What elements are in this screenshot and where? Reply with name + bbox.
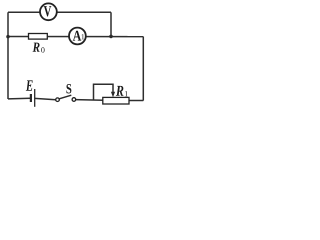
rheostat R1 — [94, 84, 130, 104]
label A — [73, 31, 81, 41]
voltmeter circle — [40, 3, 57, 20]
ammeter A — [69, 28, 86, 45]
ammeter circle — [69, 28, 86, 45]
wire battery to switch — [35, 98, 56, 99]
wire slider tap — [94, 84, 114, 100]
battery positive plate (long) — [34, 89, 36, 107]
node junction left — [6, 35, 10, 39]
switch left terminal — [56, 98, 60, 102]
resistor R1 box — [103, 97, 129, 104]
node junction right — [109, 35, 113, 39]
label E — [26, 80, 33, 90]
wire top horizontal — [8, 11, 111, 13]
label R1 — [116, 86, 124, 96]
battery negative plate (short) — [30, 94, 32, 102]
wire upper right vertical — [110, 12, 112, 36]
switch S — [56, 84, 76, 101]
resistor R0 box — [29, 34, 48, 40]
voltmeter V — [40, 3, 57, 20]
wire switch to rheostat — [76, 99, 104, 102]
wire bottom left segment — [8, 97, 31, 100]
label S — [66, 84, 71, 93]
resistor R0 — [29, 34, 48, 53]
battery E — [26, 80, 35, 106]
wire middle branch — [8, 36, 143, 38]
wire rheostat to right — [129, 100, 144, 102]
slider arrow — [111, 92, 115, 98]
switch lever — [59, 95, 71, 99]
wire right vertical — [142, 37, 144, 101]
switch right terminal — [72, 98, 76, 102]
wire left vertical — [7, 12, 9, 99]
label V — [44, 6, 52, 16]
label R0 — [33, 43, 40, 52]
